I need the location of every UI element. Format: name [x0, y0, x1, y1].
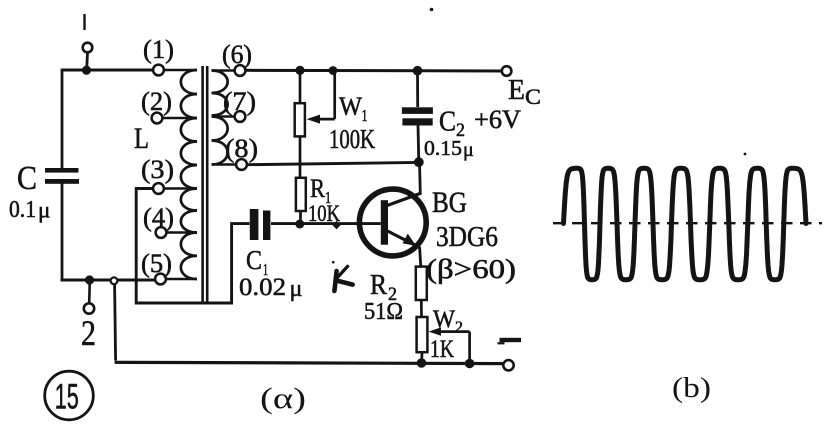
svg-text:2: 2 [455, 319, 463, 336]
svg-text:(8): (8) [225, 134, 258, 163]
svg-text:BG: BG [432, 186, 467, 219]
svg-text:15: 15 [55, 378, 79, 417]
svg-text:(β>60): (β>60) [426, 254, 516, 284]
svg-text:0.1: 0.1 [9, 197, 36, 223]
svg-text:0.15: 0.15 [424, 136, 462, 160]
svg-text:L: L [134, 122, 149, 155]
svg-text:C: C [17, 160, 37, 197]
svg-text:+6V: +6V [474, 105, 521, 134]
svg-text:μ: μ [38, 198, 50, 223]
svg-text:51Ω: 51Ω [364, 299, 403, 325]
svg-text:100K: 100K [329, 124, 375, 154]
svg-text:C: C [246, 245, 262, 275]
svg-text:(7): (7) [223, 87, 256, 116]
svg-text:(3): (3) [141, 155, 174, 184]
svg-text:(2): (2) [141, 87, 172, 116]
svg-text:2: 2 [81, 313, 96, 353]
svg-text:1: 1 [362, 106, 368, 125]
svg-text:E: E [508, 74, 525, 106]
svg-text:C: C [439, 107, 456, 138]
svg-text:C: C [525, 84, 541, 109]
svg-text:R: R [370, 270, 387, 301]
svg-text:(α): (α) [260, 382, 306, 415]
svg-text:(6): (6) [222, 40, 252, 69]
svg-text:3DG6: 3DG6 [436, 222, 498, 253]
svg-text:0.02: 0.02 [239, 274, 286, 301]
svg-text:μ: μ [463, 139, 474, 161]
svg-text:(1): (1) [143, 35, 174, 64]
svg-text:10K: 10K [308, 201, 340, 226]
svg-text:(5): (5) [141, 249, 172, 278]
svg-text:W: W [433, 306, 455, 333]
svg-text:(4): (4) [143, 203, 174, 232]
svg-text:R: R [310, 174, 326, 203]
svg-text:1K: 1K [430, 336, 454, 363]
svg-text:W: W [339, 92, 362, 121]
svg-text:μ: μ [290, 276, 303, 302]
svg-text:(b): (b) [672, 373, 711, 404]
